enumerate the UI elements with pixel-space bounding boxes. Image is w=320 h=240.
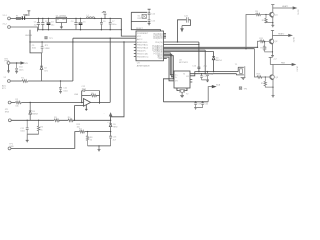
net arrow VBAT [21, 62, 24, 64]
svg-text:MM3Z: MM3Z [32, 114, 38, 116]
vertical to series cap [178, 20, 187, 42]
net arrow Q3 [292, 63, 295, 65]
ground Y2 [180, 93, 184, 98]
net arrow right [208, 87, 212, 102]
capacitor C15 [148, 20, 151, 24]
capacitor C3 electrolytic [47, 18, 51, 29]
svg-text:RED: RED [113, 127, 118, 129]
MCU U3 [136, 31, 164, 61]
T3 base feed [255, 49, 257, 77]
connector BT1 [7, 62, 10, 65]
svg-text:PB0(ICP): PB0(ICP) [137, 50, 146, 52]
test point TP5 [239, 87, 242, 90]
ground flag GND-IN [36, 30, 38, 32]
resistor R5 [37, 120, 39, 134]
reset circuit loop [131, 12, 147, 21]
capacitor C9 [41, 42, 44, 53]
crystal Y1 [237, 67, 244, 75]
svg-text:D-: D- [175, 77, 177, 79]
MCU lower wires to IC2 [164, 53, 175, 75]
svg-text:BAT54: BAT54 [216, 59, 223, 62]
feedback vertical left [81, 91, 83, 103]
resistor R2 [15, 101, 21, 104]
svg-text:XO: XO [186, 76, 189, 78]
Q1 emitter [272, 17, 274, 25]
wire row C [11, 119, 110, 121]
IC2 right stubs [190, 80, 192, 83]
resistor R14 [264, 77, 273, 87]
svg-text:VO: VO [175, 81, 178, 83]
resistor R11 [260, 40, 270, 42]
svg-text:GND-IN: GND-IN [25, 35, 33, 37]
ground under C21 [59, 92, 62, 94]
Q2 collector [273, 35, 289, 39]
ground under BT1 [7, 71, 10, 73]
long bus x124 [111, 42, 124, 117]
connector row C [8, 119, 11, 122]
svg-text:PD3(INT1): PD3(INT1) [153, 38, 163, 40]
svg-text:OUT3: OUT3 [295, 66, 297, 72]
wire row A to opamp [11, 102, 84, 104]
wire BT1 pin2 [8, 64, 10, 71]
net arrow Q1 [293, 7, 296, 9]
IC2 lower rail [163, 101, 208, 103]
svg-text:PB2(SS/OC): PB2(SS/OC) [137, 56, 149, 58]
transistor Q3 [270, 75, 275, 80]
wire row D [11, 132, 111, 149]
net arrow Q2 [289, 34, 292, 36]
ground Q1 [271, 25, 274, 27]
bus wire E [164, 51, 214, 53]
ground xtal caps [202, 80, 210, 82]
bus wire C [164, 48, 255, 50]
ground rail [37, 29, 121, 31]
wire MCU AVCC [73, 37, 136, 39]
zener diode D2 [40, 53, 43, 81]
wire bottom common [88, 145, 111, 147]
resistor R6 [91, 94, 97, 97]
svg-text:↗↗: ↗↗ [107, 121, 111, 124]
svg-text:HEAT2: HEAT2 [278, 32, 285, 35]
feedback cap line [82, 89, 100, 92]
capacitor C18 xtal [206, 72, 209, 80]
ground crystal [241, 78, 246, 80]
capacitor C10 [15, 63, 18, 72]
capacitor C11 [26, 120, 29, 134]
opamp output riser [109, 38, 111, 102]
connector J1 pin 2 [8, 26, 11, 29]
wire sense drop [30, 30, 42, 53]
resistor R3 [54, 119, 59, 122]
svg-text:PB1(OC1A): PB1(OC1A) [137, 52, 148, 55]
svg-text:AVCC: AVCC [137, 38, 143, 41]
drop x198.9 with capacitor C16 [198, 42, 201, 72]
capacitor C2 [41, 18, 44, 29]
svg-text:SDA: SDA [216, 84, 221, 87]
wire J1 pin2 to ground rail [10, 27, 37, 30]
ground arrow [181, 26, 183, 29]
svg-text:PB7(XTAL2): PB7(XTAL2) [137, 46, 148, 49]
resistor R1 [22, 80, 28, 83]
svg-text:GND: GND [9, 146, 14, 148]
capacitor C14 [148, 9, 151, 19]
wire MCU PD pin y42 [164, 41, 199, 43]
ground reset [148, 23, 151, 25]
svg-text:OUT2: OUT2 [292, 37, 294, 43]
resistor R12 [264, 41, 273, 52]
feedback resistor line [82, 91, 100, 104]
bus wire D [164, 49, 206, 51]
svg-text:100n: 100n [112, 24, 116, 26]
bus wire B [164, 46, 258, 48]
svg-text:100n: 100n [32, 48, 36, 50]
wire VIN rail [10, 17, 121, 19]
svg-text:SNS: SNS [5, 112, 10, 114]
resistor R4 [68, 119, 73, 122]
svg-text:ADC: ADC [2, 84, 7, 87]
inductor L1 [86, 17, 95, 19]
capacitor C22 [201, 102, 204, 108]
ground under U1 [60, 23, 63, 29]
T1 base feed [246, 15, 256, 49]
capacitor C24 series [187, 17, 189, 22]
test point TP1 [45, 37, 47, 39]
power stub reset [148, 8, 151, 10]
IC2 bottom crystal Y2 [177, 88, 187, 91]
drop x205.2 [204, 50, 206, 74]
svg-text:GND: GND [158, 58, 163, 60]
power flag Q3 [269, 57, 273, 64]
LED D5 [109, 120, 112, 136]
capacitor C7 [109, 18, 112, 29]
Q3 collector [273, 65, 292, 75]
svg-text:PC6/RESET: PC6/RESET [137, 33, 149, 35]
transistor Q1 [270, 12, 275, 17]
svg-text:10u: 10u [51, 24, 54, 26]
wire row B [10, 80, 73, 82]
regulator U1 [56, 17, 67, 22]
svg-text:ATMEGA328: ATMEGA328 [137, 64, 151, 67]
ground row C [26, 140, 29, 142]
diode D1 series [22, 16, 24, 20]
MCU right stub pins top [164, 34, 167, 39]
wire BT1 [10, 62, 21, 64]
svg-text:100n: 100n [20, 131, 24, 133]
resistor R13 [257, 76, 270, 78]
opamp V- stub [85, 105, 87, 110]
ground bottom [98, 146, 101, 151]
svg-text:U2A: U2A [74, 93, 79, 96]
connector row A [8, 101, 11, 104]
svg-text:100n: 100n [19, 69, 23, 71]
wire C11 R5 common to ground [27, 134, 38, 140]
IC2 left wire 1 [172, 76, 174, 78]
wire opamp output [91, 101, 111, 103]
IC2 U4 [174, 71, 190, 88]
svg-text:1k: 1k [40, 130, 42, 132]
svg-text:VREF: VREF [45, 48, 51, 50]
svg-text:VIN: VIN [23, 14, 27, 17]
wire reset to MCU [131, 22, 160, 32]
net arrow up flag [109, 113, 111, 116]
capacitor C17 xtal [200, 74, 203, 80]
capacitor C5 electrolytic [79, 18, 83, 29]
op-amp U2A [84, 99, 91, 107]
capacitor C20 [109, 136, 112, 146]
power flag Q2 [271, 30, 274, 35]
capacitor C1 [37, 18, 40, 29]
svg-text:RESET: RESET [136, 28, 143, 30]
drop x213.6 with diode D4 [212, 52, 215, 72]
svg-text:MCP3421: MCP3421 [179, 62, 189, 64]
transistor Q2 [269, 39, 274, 44]
wire sense net horizontal [30, 41, 136, 43]
Q1 collector [273, 8, 293, 12]
svg-text:10k: 10k [15, 106, 18, 108]
ground under C10 [15, 72, 18, 74]
ground Q2 [271, 56, 274, 58]
ground Q3 [272, 96, 275, 98]
IC2 right pin crystal wire 2 [190, 73, 237, 75]
Q3 emitter [272, 79, 274, 95]
svg-text:PWR: PWR [5, 61, 10, 63]
resistor R10 [265, 15, 273, 23]
wire sense vertical x73 [72, 38, 74, 81]
svg-text:FAN: FAN [281, 62, 285, 65]
connector row B [7, 80, 10, 83]
MCU left stub pins [134, 45, 136, 57]
switch S1 [142, 14, 146, 18]
svg-text:+5V: +5V [102, 11, 107, 14]
svg-text:HEAT1: HEAT1 [282, 5, 289, 8]
svg-text:2k: 2k [90, 140, 92, 142]
bus wire A [164, 44, 199, 46]
IC2 right pin crystal wire 1 jog [190, 72, 238, 76]
power flag Q1 [271, 5, 274, 8]
Q2 emitter [272, 44, 274, 56]
svg-text:100n: 100n [63, 90, 67, 92]
zener diode D3 [29, 103, 32, 121]
resistor R8 [86, 132, 88, 146]
wire plus input [75, 106, 84, 121]
capacitor C19 [194, 102, 197, 108]
svg-text:VCC: VCC [137, 36, 142, 38]
capacitor C4 [74, 18, 77, 29]
ground under C19 C22 [194, 108, 203, 110]
resistor R7 [80, 130, 85, 133]
junction dots power rails [38, 18, 39, 19]
capacitor C21 to gnd [59, 81, 62, 92]
power flag VIN [28, 11, 31, 16]
resistor R9 [256, 13, 270, 15]
svg-text:PB6(XTAL1): PB6(XTAL1) [137, 43, 148, 46]
IC2 left wire 2 to lower rail [163, 79, 174, 102]
wire 5V rail to MCU VCC [121, 18, 136, 36]
fuse F1 [16, 18, 20, 20]
svg-text:PD4(T0): PD4(T0) [155, 42, 163, 44]
connector J1 pin 1 [8, 17, 11, 20]
connector TP row D [8, 147, 11, 150]
svg-text:OUT1: OUT1 [297, 10, 299, 16]
T2 base feed [258, 41, 260, 47]
capacitor C6 [100, 18, 103, 29]
svg-text:U1 LM7805: U1 LM7805 [56, 15, 67, 17]
power flag +5V [104, 14, 107, 18]
